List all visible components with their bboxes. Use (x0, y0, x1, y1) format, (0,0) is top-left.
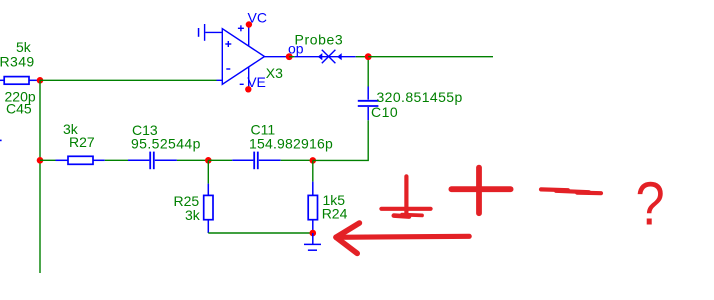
svg-text:3k: 3k (185, 207, 201, 223)
wire (40, 159, 56, 161)
wire (208, 159, 232, 161)
capacitor C45 edge fragment (0, 140, 2, 142)
svg-text:C10: C10 (371, 104, 398, 120)
resistor R27 (56, 156, 105, 164)
svg-text:R24: R24 (322, 205, 348, 221)
ground (304, 233, 321, 250)
wire (177, 159, 208, 161)
node VE dot (245, 86, 251, 92)
svg-text:C45: C45 (6, 101, 32, 117)
junction dot R25 top (205, 157, 212, 164)
op-amp X3 (205, 24, 265, 89)
wire inverting input (40, 79, 217, 81)
node VC dot (246, 21, 252, 27)
junction dot R24 top (310, 157, 317, 164)
svg-text:95.52544p: 95.52544p (131, 135, 201, 151)
svg-text:Probe3: Probe3 (295, 32, 344, 48)
wire (289, 56, 294, 58)
junction dot R349 output (37, 77, 44, 84)
resistor R24 (308, 182, 317, 233)
wire R25 branch (207, 160, 209, 183)
svg-text:X3: X3 (266, 65, 283, 81)
svg-text:320.851455p: 320.851455p (377, 89, 463, 105)
wire output node to C10 (367, 57, 369, 87)
svg-text:R27: R27 (69, 134, 95, 150)
wire (105, 159, 128, 161)
capacitor C10 (358, 87, 379, 121)
wire left vertical (39, 80, 41, 273)
wire output right (368, 56, 493, 58)
probe Probe3 (295, 50, 356, 64)
capacitor C13 (128, 152, 177, 170)
wire to C10 bottom (313, 120, 368, 160)
capacitor C11 (232, 152, 281, 170)
wire op-amp output (265, 56, 290, 58)
wire bottom horizontal (208, 232, 312, 234)
wire R24 branch (312, 160, 314, 181)
annotation hand-drawn ground symbol (381, 176, 430, 216)
junction dot mid-left (37, 157, 44, 164)
svg-text:R349: R349 (0, 54, 35, 70)
svg-text:?: ? (636, 170, 665, 239)
wire probe to output node (356, 56, 369, 58)
label I (198, 28, 200, 37)
junction dot output (365, 53, 372, 60)
svg-text:154.982916p: 154.982916p (249, 135, 333, 151)
resistor R25 (204, 184, 213, 233)
resistor R349 (0, 77, 37, 85)
annotation plus sign (451, 168, 510, 214)
annotation arrow pointing to ground (336, 223, 469, 253)
annotation minus sign (541, 189, 601, 193)
junction dot ground (310, 230, 317, 237)
wire (281, 159, 313, 161)
node op dot (286, 53, 293, 60)
